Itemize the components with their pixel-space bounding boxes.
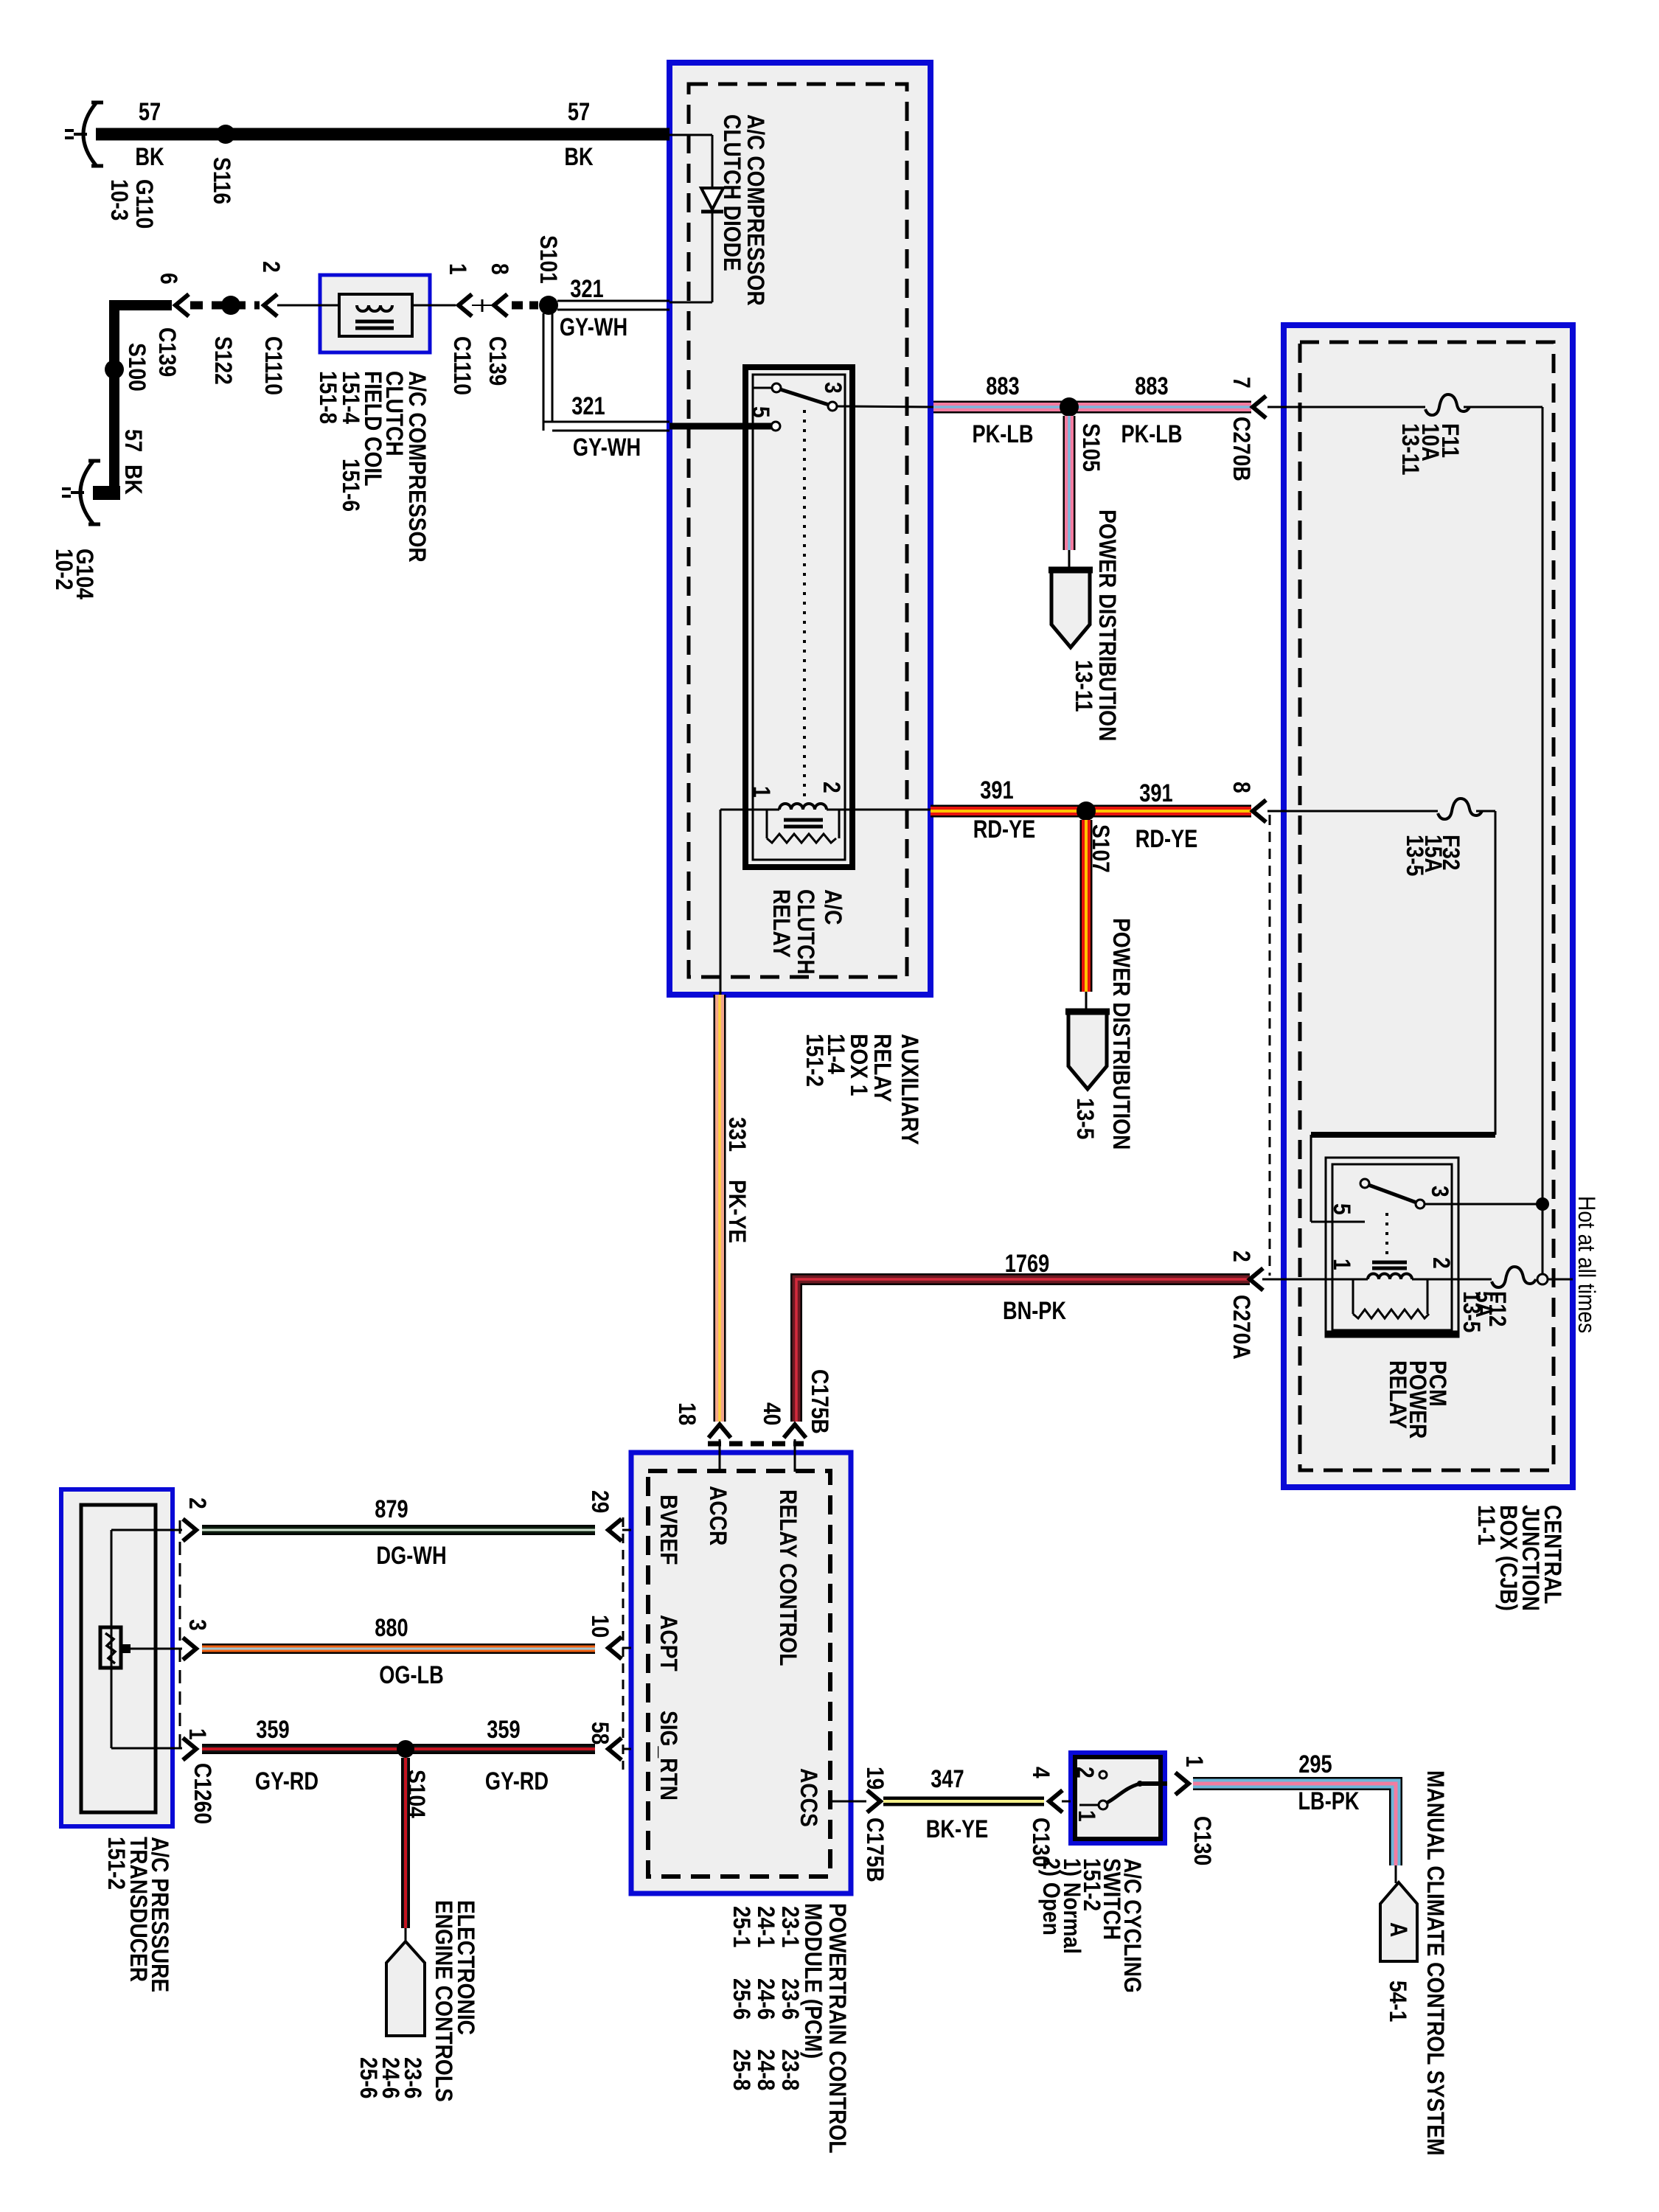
- svg-text:5: 5: [748, 406, 774, 418]
- svg-text:10: 10: [587, 1615, 613, 1638]
- splice S105: [1060, 397, 1079, 417]
- svg-text:391: 391: [980, 776, 1013, 804]
- svg-text:58: 58: [587, 1722, 613, 1745]
- connector pin 8: [1253, 800, 1266, 822]
- svg-text:24-1: 24-1: [753, 1906, 779, 1947]
- wire dashed segment with S122: [190, 302, 260, 310]
- svg-text:LB-PK: LB-PK: [1298, 1787, 1359, 1815]
- wire dashed to S101: [512, 302, 538, 310]
- svg-text:295: 295: [1298, 1750, 1332, 1778]
- svg-text:A: A: [1385, 1922, 1412, 1937]
- svg-text:1769: 1769: [1005, 1250, 1050, 1278]
- svg-text:BVREF: BVREF: [655, 1495, 682, 1565]
- svg-text:25-1: 25-1: [728, 1906, 755, 1947]
- svg-text:879: 879: [375, 1495, 408, 1523]
- relay coil resistor: [1352, 1279, 1354, 1314]
- wire 359 GY-RD: [202, 1744, 595, 1754]
- svg-text:C175B: C175B: [862, 1818, 888, 1882]
- A/C compressor clutch field coil L1: [357, 305, 369, 311]
- relay dotted link: [1385, 1213, 1388, 1255]
- svg-text:347: 347: [931, 1765, 964, 1793]
- svg-text:8: 8: [487, 263, 513, 275]
- svg-text:Hot at all times: Hot at all times: [1573, 1196, 1600, 1333]
- svg-text:PK-YE: PK-YE: [724, 1180, 751, 1243]
- wire 359 down from S104: [401, 1758, 410, 1928]
- off-page POWER DISTRIBUTION 13-5: [1068, 1012, 1107, 1089]
- svg-text:151-2: 151-2: [801, 1034, 828, 1087]
- hot bus vertical: [1542, 407, 1544, 1279]
- svg-text:PK-LB: PK-LB: [972, 420, 1033, 448]
- svg-text:359: 359: [256, 1716, 289, 1744]
- svg-text:18: 18: [674, 1402, 700, 1425]
- PCM pin 40 arrow: [784, 1425, 806, 1438]
- wire pin3 to hot bus: [1425, 1203, 1543, 1206]
- svg-text:1: 1: [1329, 1259, 1355, 1270]
- svg-text:2: 2: [1228, 1251, 1255, 1262]
- svg-text:C130: C130: [1028, 1818, 1054, 1867]
- svg-text:S100: S100: [124, 343, 150, 392]
- wire thin into field coil: [277, 305, 339, 307]
- wire 347 BK-YE: [883, 1797, 1044, 1806]
- svg-text:25-6: 25-6: [355, 2057, 382, 2098]
- box: POWERTRAIN CONTROL MODULE (PCM): [631, 1453, 851, 1893]
- splice S100: [105, 360, 124, 379]
- svg-text:DG-WH: DG-WH: [376, 1542, 446, 1570]
- box: AUXILIARY RELAY BOX 1: [669, 63, 931, 995]
- svg-text:321: 321: [571, 392, 605, 420]
- wire PK-LB down from S105: [1063, 416, 1076, 550]
- svg-text:3: 3: [820, 382, 846, 394]
- svg-text:OG-LB: OG-LB: [379, 1661, 444, 1689]
- wire 331 PK-YE: [714, 995, 726, 1422]
- connector C1110 pin 1: [459, 294, 472, 316]
- svg-text:2) Open: 2) Open: [1038, 1858, 1065, 1935]
- off-page POWER DISTRIBUTION 13-11: [1051, 570, 1090, 647]
- pin 5 contact: [771, 422, 780, 431]
- A/C compressor clutch diode D1: [701, 188, 723, 209]
- svg-text:7: 7: [1228, 377, 1255, 389]
- wire 295 LB-PK: [1193, 1784, 1396, 1865]
- svg-text:25-6: 25-6: [728, 1978, 755, 2020]
- svg-text:RELAY: RELAY: [768, 889, 795, 958]
- svg-text:883: 883: [1135, 372, 1168, 400]
- connector C139 pin 8: [472, 305, 493, 306]
- wire 391 RD-YE: [931, 805, 1251, 818]
- wire thick 321 into relay pin 5: [669, 423, 771, 430]
- svg-text:13-5: 13-5: [1402, 835, 1428, 876]
- svg-text:8: 8: [1228, 782, 1255, 793]
- svg-text:10-2: 10-2: [51, 549, 77, 590]
- connector C130 pin 4: [1049, 1790, 1062, 1812]
- svg-text:57: 57: [568, 98, 590, 126]
- PCM power relay K2: [1326, 1158, 1458, 1337]
- svg-text:25-8: 25-8: [728, 2049, 755, 2090]
- svg-text:23-1: 23-1: [777, 1906, 804, 1947]
- svg-text:MANUAL CLIMATE CONTROL SYSTEM: MANUAL CLIMATE CONTROL SYSTEM: [1422, 1770, 1449, 2156]
- svg-text:BK-YE: BK-YE: [926, 1815, 989, 1843]
- ground G104: [80, 462, 93, 524]
- connector C1110 pin 2: [264, 294, 277, 316]
- box: CENTRAL JUNCTION BOX (CJB): [1284, 325, 1573, 1487]
- svg-text:23-8: 23-8: [777, 2049, 804, 2090]
- box: A/C CYCLING SWITCH: [1071, 1753, 1165, 1843]
- svg-text:2: 2: [184, 1498, 211, 1509]
- svg-text:GY-WH: GY-WH: [573, 434, 641, 462]
- svg-text:C270A: C270A: [1228, 1295, 1255, 1360]
- svg-text:C1110: C1110: [260, 336, 287, 395]
- svg-text:24-6: 24-6: [753, 1978, 779, 2020]
- svg-text:11-1: 11-1: [1473, 1505, 1500, 1545]
- svg-text:ACCS: ACCS: [796, 1768, 822, 1827]
- A/C clutch relay K1: [745, 367, 852, 867]
- svg-text:6: 6: [156, 273, 182, 285]
- wire pin5 to F32 bus: [1311, 1221, 1365, 1223]
- svg-text:GY-RD: GY-RD: [255, 1767, 319, 1795]
- svg-text:C139: C139: [154, 327, 181, 377]
- svg-text:C1110: C1110: [449, 336, 476, 395]
- svg-text:24-8: 24-8: [753, 2049, 779, 2090]
- svg-text:57: 57: [139, 98, 161, 126]
- wire diode branch: [669, 134, 712, 136]
- svg-text:29: 29: [587, 1490, 613, 1513]
- relay dotted link: [803, 410, 806, 798]
- connector C130 pin 1 right: [1175, 1773, 1189, 1795]
- splice S101: [539, 296, 558, 315]
- splice S107: [1077, 801, 1096, 821]
- connector dashed line C270: [1269, 815, 1271, 1276]
- bus thick link to relay pin5: [1311, 1132, 1495, 1138]
- svg-text:3: 3: [184, 1619, 211, 1631]
- connector C139 pin 6: [175, 294, 189, 316]
- wire 321 GY-WH upper double-line to aux box: [557, 300, 669, 302]
- box: A/C PRESSURE TRANSDUCER: [61, 1489, 173, 1826]
- svg-text:C130: C130: [1189, 1816, 1216, 1865]
- svg-text:GY-WH: GY-WH: [560, 313, 627, 341]
- svg-text:BK: BK: [135, 143, 164, 171]
- svg-text:2: 2: [258, 261, 285, 273]
- svg-text:359: 359: [487, 1716, 520, 1744]
- svg-text:1: 1: [184, 1728, 211, 1740]
- svg-text:BN-PK: BN-PK: [1003, 1297, 1066, 1325]
- A/C cycling switch S1: [1099, 1771, 1107, 1778]
- svg-text:BK: BK: [564, 143, 594, 171]
- svg-text:1: 1: [445, 263, 471, 275]
- svg-text:13-11: 13-11: [1071, 660, 1097, 712]
- svg-text:321: 321: [570, 275, 603, 303]
- svg-text:3: 3: [1427, 1186, 1453, 1197]
- PCM pin 19 ACCS: [830, 1801, 851, 1803]
- svg-text:2: 2: [1072, 1767, 1099, 1778]
- connector C175B dashed at PCM left: [622, 1517, 625, 1770]
- svg-text:RD-YE: RD-YE: [1135, 825, 1198, 853]
- svg-text:13-11: 13-11: [1397, 423, 1424, 476]
- wire coil pin2 to F12: [1449, 1279, 1492, 1281]
- svg-text:331: 331: [724, 1117, 751, 1152]
- connector C270A pin 2: [1250, 1268, 1263, 1290]
- svg-text:10-3: 10-3: [106, 179, 133, 220]
- wire coil pin1 down to box exit: [720, 809, 751, 811]
- svg-text:ENGINE CONTROLS: ENGINE CONTROLS: [431, 1900, 457, 2102]
- svg-text:S122: S122: [210, 336, 237, 385]
- svg-text:1: 1: [1181, 1756, 1208, 1767]
- svg-text:57: 57: [120, 429, 147, 452]
- relay switch: [1360, 1179, 1369, 1188]
- svg-text:4: 4: [1028, 1767, 1054, 1778]
- svg-text:A/C COMPRESSOR: A/C COMPRESSOR: [742, 114, 769, 306]
- svg-text:CLUTCH: CLUTCH: [793, 889, 819, 975]
- splice S116: [216, 125, 235, 144]
- off-page A to MANUAL CLIMATE CONTROL SYSTEM: [1380, 1882, 1417, 1961]
- svg-text:2: 2: [1428, 1257, 1455, 1269]
- svg-text:POWER DISTRIBUTION: POWER DISTRIBUTION: [1108, 918, 1135, 1150]
- svg-text:1: 1: [1074, 1810, 1100, 1822]
- svg-text:RELAY CONTROL: RELAY CONTROL: [775, 1489, 801, 1666]
- svg-text:ACPT: ACPT: [655, 1615, 682, 1672]
- svg-text:C270B: C270B: [1228, 417, 1255, 481]
- connector C1260 dashed: [179, 1520, 181, 1749]
- svg-text:1: 1: [748, 786, 775, 798]
- svg-text:ACCR: ACCR: [705, 1486, 731, 1545]
- relay switch contacts: [754, 387, 771, 389]
- svg-text:19: 19: [862, 1767, 888, 1790]
- svg-text:PK-LB: PK-LB: [1121, 420, 1182, 448]
- wire thin out of field coil: [412, 305, 456, 307]
- relay coil parallel resistor: [766, 810, 768, 838]
- wire F11 feed: [1267, 406, 1425, 408]
- PCM left pins arrows: [608, 1519, 622, 1541]
- svg-text:23-6: 23-6: [777, 1978, 804, 2020]
- svg-text:RELAY: RELAY: [869, 1034, 896, 1102]
- pin stubs: [111, 1529, 182, 1531]
- wire RD-YE down from S107: [1080, 820, 1093, 992]
- wire F32 feed: [1267, 810, 1438, 813]
- svg-text:RD-YE: RD-YE: [973, 815, 1036, 844]
- svg-text:S101: S101: [535, 235, 562, 284]
- ground G110: [83, 103, 96, 165]
- svg-text:13-5: 13-5: [1458, 1291, 1485, 1332]
- svg-text:151-8: 151-8: [315, 371, 341, 424]
- svg-text:5: 5: [1329, 1203, 1355, 1215]
- connector C270B pin 7: [1253, 396, 1266, 418]
- wire 57 BK vertical to G104: [109, 300, 119, 500]
- svg-text:40: 40: [759, 1402, 785, 1425]
- transducer pin arrows 2 3 1: [183, 1519, 196, 1541]
- svg-text:C1260: C1260: [189, 1763, 216, 1824]
- wire 883 PK-LB: [933, 401, 1251, 414]
- svg-text:AUXILIARY: AUXILIARY: [897, 1034, 923, 1145]
- splice S122: [221, 296, 240, 315]
- svg-text:G110: G110: [131, 179, 158, 229]
- wire pin3 to box edge: [837, 406, 933, 407]
- wire 879 DG-WH: [202, 1525, 595, 1535]
- wire 321 GY-WH lower: down from S101 then right: [543, 313, 545, 431]
- svg-text:880: 880: [375, 1614, 408, 1642]
- wire thick to C139: [109, 300, 172, 310]
- connector C175B dashed: [708, 1441, 804, 1447]
- box: A/C COMPRESSOR CLUTCH FIELD COIL: [320, 275, 430, 352]
- wire 1769 BN-PK: [796, 1279, 1250, 1422]
- wire 57 BK from G110 to aux box: [96, 128, 669, 141]
- svg-text:POWER DISTRIBUTION: POWER DISTRIBUTION: [1094, 509, 1121, 741]
- svg-text:POWERTRAIN CONTROL: POWERTRAIN CONTROL: [824, 1903, 851, 2154]
- splice S104: [397, 1740, 414, 1758]
- svg-text:151-6: 151-6: [338, 459, 364, 512]
- svg-text:151-2: 151-2: [103, 1837, 130, 1890]
- svg-text:C175B: C175B: [807, 1369, 833, 1434]
- svg-text:391: 391: [1139, 779, 1172, 807]
- svg-text:54-1: 54-1: [1385, 1980, 1411, 2022]
- svg-text:SIG_RTN: SIG_RTN: [655, 1711, 682, 1801]
- svg-text:A/C: A/C: [820, 889, 846, 925]
- pressure transducer sensor: [111, 1530, 113, 1748]
- svg-text:2: 2: [818, 782, 845, 793]
- svg-text:S116: S116: [209, 157, 235, 204]
- svg-text:CLUTCH DIODE: CLUTCH DIODE: [719, 114, 745, 271]
- svg-text:GY-RD: GY-RD: [485, 1767, 549, 1795]
- svg-text:S105: S105: [1078, 423, 1105, 472]
- off-page ELECTRONIC ENGINE CONTROLS: [386, 1941, 425, 2036]
- svg-text:883: 883: [986, 372, 1019, 400]
- svg-text:RELAY: RELAY: [1385, 1360, 1411, 1429]
- svg-text:BK: BK: [120, 465, 147, 495]
- svg-text:13-5: 13-5: [1072, 1098, 1099, 1139]
- svg-text:C139: C139: [484, 336, 511, 386]
- PCM pin 18 ACCR arrow: [709, 1425, 731, 1438]
- wire 880 OG-LB: [202, 1644, 595, 1654]
